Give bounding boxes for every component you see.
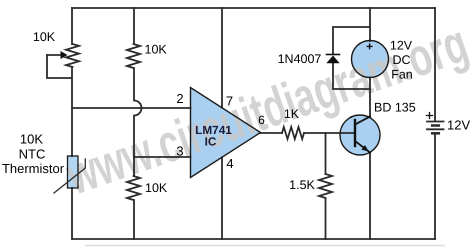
svg-text:3: 3 — [176, 144, 183, 159]
resistor R3 1K zigzag — [282, 127, 304, 139]
wire left rail lower — [71, 188, 73, 239]
battery B1 long plate top — [427, 121, 444, 123]
resistor R2 10K lower zigzag — [127, 176, 140, 200]
thermistor TH1 outline — [68, 156, 79, 188]
wire output to base — [304, 132, 355, 134]
pot wiper arrowhead — [61, 51, 68, 59]
battery plus sign — [427, 113, 433, 119]
svg-text:2: 2 — [176, 91, 183, 106]
svg-text:1K: 1K — [284, 107, 300, 121]
svg-text:7: 7 — [226, 94, 233, 109]
resistor R1 10K upper zigzag — [127, 44, 140, 68]
wire left rail middle — [71, 67, 73, 156]
svg-text:6: 6 — [258, 113, 265, 127]
svg-text:Thermistor: Thermistor — [2, 161, 65, 176]
wire pin4 to ground — [221, 158, 223, 240]
svg-text:10K: 10K — [145, 43, 168, 57]
transistor Q1 collector stroke — [355, 117, 370, 125]
op-amp U1 body fill — [191, 88, 261, 178]
svg-text:10K: 10K — [145, 181, 168, 195]
battery B1 long plate 3 — [427, 128, 444, 130]
resistor R4 1.5K zigzag — [319, 174, 332, 198]
wire pin7 to V+ — [221, 8, 223, 108]
wire divider branch lower — [133, 200, 135, 239]
transistor Q1 outline — [340, 115, 380, 155]
svg-text:10K: 10K — [33, 30, 56, 44]
svg-text:4: 4 — [226, 156, 233, 171]
fan M1 outline — [352, 41, 389, 78]
transistor Q1 base bar — [354, 120, 356, 146]
wire diode branch bottom — [333, 63, 370, 89]
wire right rail upper — [434, 8, 436, 121]
wire inverting input pin2 — [72, 107, 191, 109]
svg-text:NTC: NTC — [19, 147, 46, 162]
transistor Q1 body fill — [340, 115, 380, 155]
wire divider branch mid with hop — [134, 68, 142, 176]
wire right rail lower — [434, 134, 436, 239]
diode D1 cathode bar — [327, 54, 340, 56]
svg-text:1.5K: 1.5K — [289, 178, 315, 192]
svg-text:Fan: Fan — [391, 68, 413, 82]
wire collector to fan — [369, 78, 371, 117]
svg-text:DC: DC — [392, 53, 410, 67]
transistor Q1 emitter stroke — [355, 141, 370, 153]
fan plus sign — [367, 44, 372, 49]
wire 1.5K branch — [325, 133, 327, 174]
svg-text:12V: 12V — [447, 118, 470, 133]
wire pot wiper loop — [47, 55, 71, 78]
svg-text:IC: IC — [205, 135, 217, 149]
pot wiper arrow line — [47, 54, 62, 56]
battery B1 short plate 2 — [432, 124, 439, 127]
svg-text:12V: 12V — [390, 39, 413, 53]
svg-text:10K: 10K — [20, 132, 43, 147]
wire divider branch upper — [133, 8, 135, 44]
wire non-inverting input pin3 — [134, 156, 191, 158]
transistor Q1 emitter arrowhead — [361, 145, 368, 151]
wire op-amp output — [261, 132, 283, 134]
thermistor TH1 body fill — [68, 156, 79, 188]
wire bottom rail — [72, 238, 435, 240]
fan M1 body fill — [352, 41, 389, 78]
wire diode branch top — [333, 27, 370, 54]
wire left rail upper — [71, 8, 73, 44]
battery B1 short plate 4 — [432, 132, 439, 135]
wire top rail — [72, 7, 435, 9]
diode D1 triangle — [326, 56, 339, 64]
wire emitter to ground — [369, 153, 371, 240]
wire 1.5K to ground — [325, 198, 327, 239]
thermistor TH1 diagonal — [54, 159, 85, 193]
svg-text:BD 135: BD 135 — [374, 101, 416, 115]
wire fan top — [369, 8, 371, 41]
resistor VR1 10K pot zigzag — [66, 44, 79, 67]
op-amp U1 outline — [191, 88, 261, 178]
shadow under bottom rail — [85, 245, 445, 247]
svg-text:1N4007: 1N4007 — [278, 52, 322, 66]
